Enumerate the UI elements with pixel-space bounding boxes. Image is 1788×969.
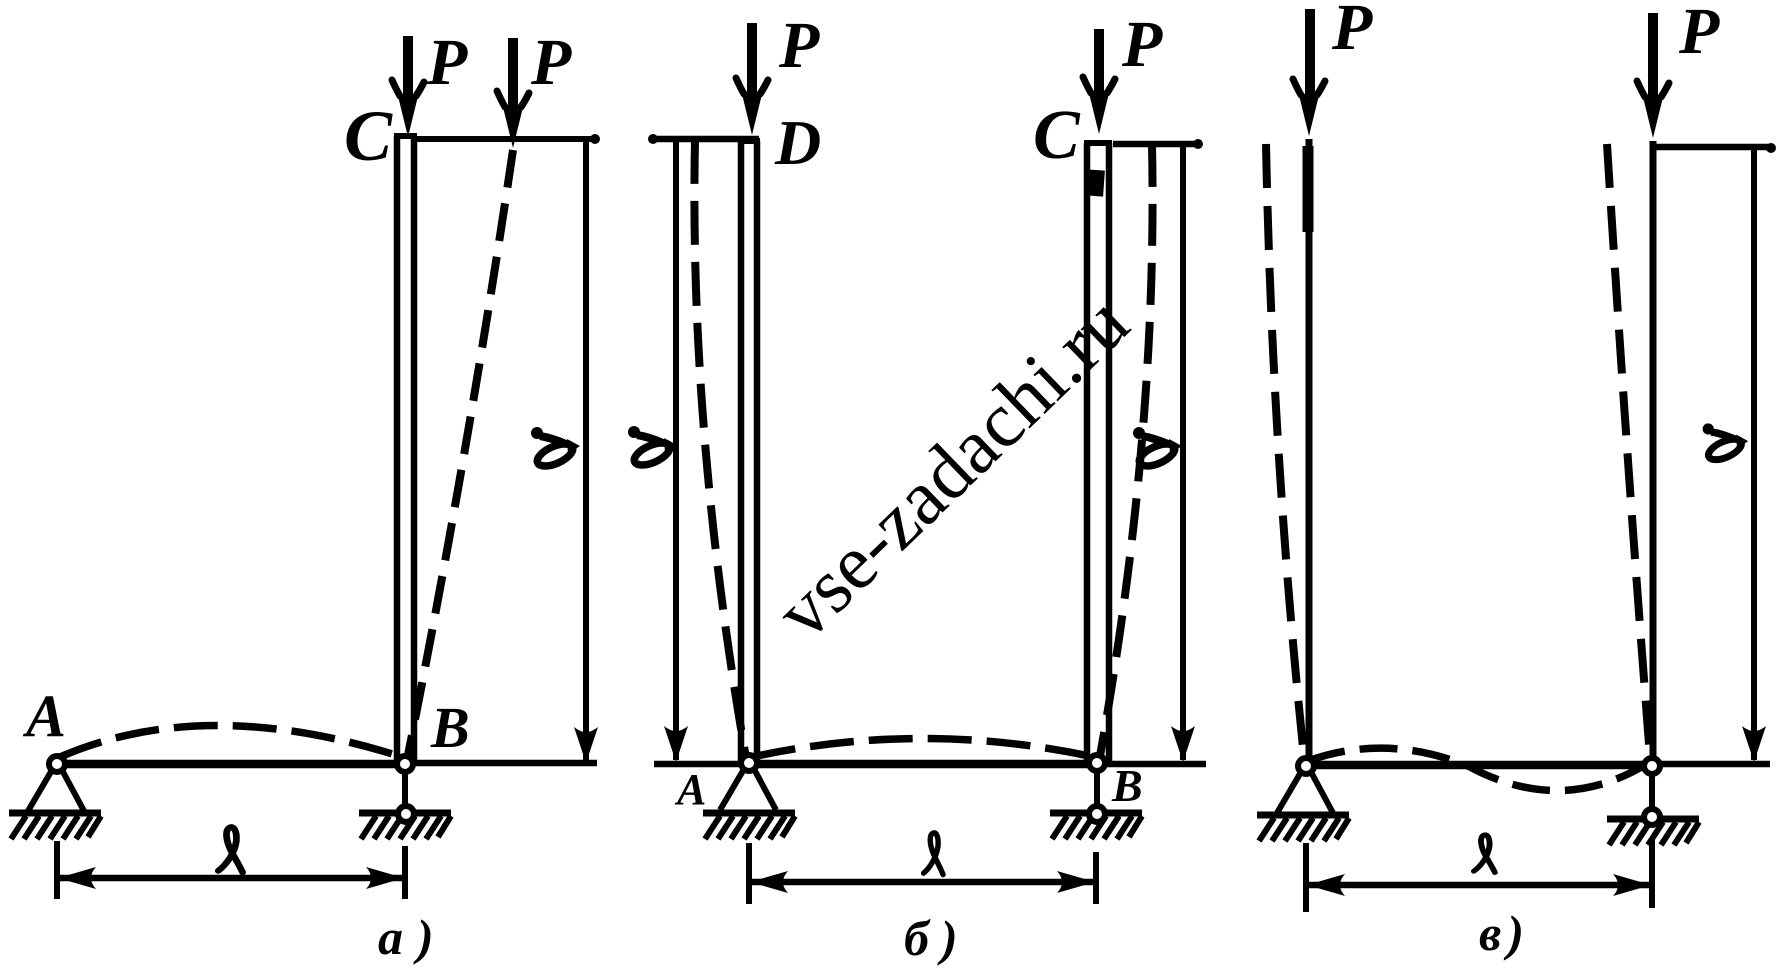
svg-text:в): в): [1479, 905, 1530, 961]
beam level tick to dimension: [405, 760, 597, 767]
svg-text:P: P: [1121, 8, 1163, 81]
left column thick overlap: [1303, 146, 1314, 232]
svg-text:C: C: [344, 96, 393, 176]
label l: [218, 827, 242, 872]
pin A triangle: [1277, 772, 1333, 813]
svg-text:P: P: [778, 9, 820, 82]
roller circle at B: [398, 806, 414, 822]
label l: [924, 833, 943, 875]
left column AD left edge: [738, 141, 745, 762]
svg-text:P: P: [426, 26, 468, 99]
right column: [1650, 141, 1657, 762]
ground at B: [359, 813, 451, 839]
label a left: [628, 426, 677, 469]
extension below B: [1649, 840, 1655, 908]
top reference line: [415, 136, 595, 142]
svg-text:B: B: [1111, 760, 1143, 811]
svg-text:A: A: [22, 683, 66, 749]
left column: [1306, 139, 1313, 762]
roller circle at B: [1644, 809, 1660, 825]
svg-text:D: D: [774, 107, 821, 178]
dashed buckled left column: [694, 140, 746, 758]
ground at A: [703, 813, 795, 839]
roller link at B: [1094, 771, 1100, 808]
beam extension right: [1652, 761, 1770, 768]
dimension line a left: [673, 141, 679, 760]
beam extension right: [1097, 761, 1206, 768]
right column BC left edge: [1084, 143, 1091, 762]
dashed buckled beam: [752, 739, 1094, 758]
column BC top cap: [394, 133, 417, 139]
right column BC right edge: [1106, 143, 1113, 762]
ground at B: [1050, 813, 1142, 839]
dimension line a: [1751, 147, 1757, 760]
dimension line a right: [1180, 146, 1186, 760]
svg-text:P: P: [530, 26, 572, 99]
pin A circle: [741, 755, 757, 771]
load P arrow right: [1094, 29, 1104, 100]
column BC right edge: [411, 136, 418, 762]
dashed buckled beam: [60, 726, 402, 758]
load P arrow left: [1305, 9, 1315, 101]
beam AB: [57, 760, 405, 769]
label a: [1703, 423, 1749, 463]
load P arrow left: [747, 23, 757, 101]
dashed buckled left column: [1266, 144, 1304, 757]
pin A triangle: [720, 769, 776, 810]
dashed buckled right column: [1607, 144, 1650, 757]
pin A circle: [1298, 758, 1314, 774]
beam AB: [1306, 761, 1652, 770]
dimension line a: [583, 139, 589, 760]
pin A circle: [49, 756, 65, 772]
extension line below B: [402, 846, 408, 899]
dimension line l: [58, 875, 404, 882]
roller link at B: [1649, 774, 1655, 810]
load P arrow right: [1648, 13, 1658, 103]
pin B circle: [1089, 755, 1105, 771]
roller circle at B: [1089, 806, 1105, 822]
ink blob on right column: [1086, 169, 1105, 196]
extension below B: [1093, 852, 1099, 904]
left column AD right edge: [754, 141, 761, 762]
dimension line l: [1307, 882, 1651, 889]
svg-text:B: B: [430, 695, 470, 760]
svg-text:C: C: [1033, 97, 1081, 174]
extension below A: [1303, 843, 1309, 912]
label a: [531, 427, 580, 470]
column BC left edge: [394, 136, 401, 762]
dashed S-curve beam: [1308, 748, 1650, 790]
dimension line l: [750, 879, 1095, 886]
roller link at B: [402, 772, 408, 808]
extension line below A: [54, 841, 60, 899]
left column top cap: [738, 138, 760, 144]
label a right: [1133, 427, 1182, 470]
svg-text:P: P: [1678, 0, 1720, 68]
top tick line right: [1113, 141, 1201, 148]
label l: [1474, 835, 1495, 873]
pin A triangle: [28, 770, 84, 811]
dashed buckled right column: [1100, 145, 1153, 756]
ground at A: [1257, 815, 1349, 841]
svg-text:A: A: [674, 765, 706, 814]
pin B circle: [1644, 758, 1660, 774]
top tick line left: [650, 136, 759, 143]
top tick line: [1656, 144, 1772, 151]
beam AB: [749, 760, 1097, 769]
right column top cap: [1084, 140, 1112, 146]
pin B circle: [397, 756, 413, 772]
extension below A: [746, 843, 752, 904]
load P arrow on column: [403, 36, 413, 102]
second load P arrow (displaced position): [508, 38, 518, 113]
svg-text:б): б): [904, 910, 970, 966]
dashed buckled column: [407, 150, 513, 760]
svg-text:а): а): [378, 909, 448, 965]
ground at B: [1607, 819, 1699, 845]
ground at A: [9, 813, 101, 839]
beam tick left of A: [654, 761, 749, 768]
svg-text:P: P: [1331, 0, 1373, 64]
